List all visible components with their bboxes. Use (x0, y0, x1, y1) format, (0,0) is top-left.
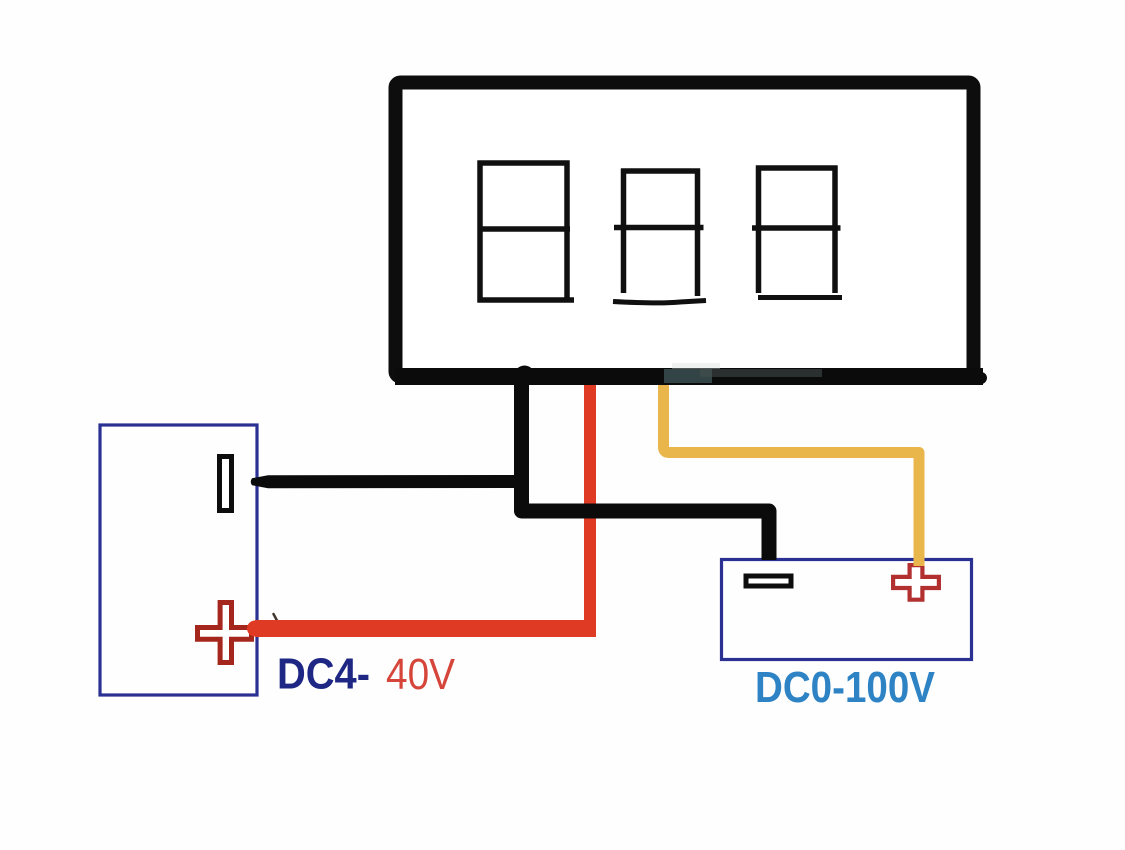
svg-text:DC0-100V: DC0-100V (755, 664, 935, 712)
svg-text:40V: 40V (386, 651, 455, 699)
svg-text:DC4-: DC4- (277, 651, 370, 699)
